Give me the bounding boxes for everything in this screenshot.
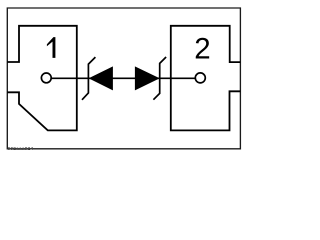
pad 1 (pin 1 terminal plate with chamfer) [7, 26, 77, 131]
svg-text:002aaa924: 002aaa924 [8, 146, 34, 151]
pin 1 label [47, 37, 56, 58]
package outline [7, 8, 240, 149]
TVS zener diode D2 (right, anode left / cathode bar right) [135, 57, 166, 100]
terminal circle 2 [195, 73, 205, 83]
wire [51, 77, 195, 79]
TVS zener diode D1 (left, anode right / cathode bar left) [82, 57, 113, 100]
terminal circle 1 [41, 73, 51, 83]
pad 2 (pin 2 terminal plate) [171, 26, 241, 131]
svg-text:2: 2 [194, 32, 210, 65]
